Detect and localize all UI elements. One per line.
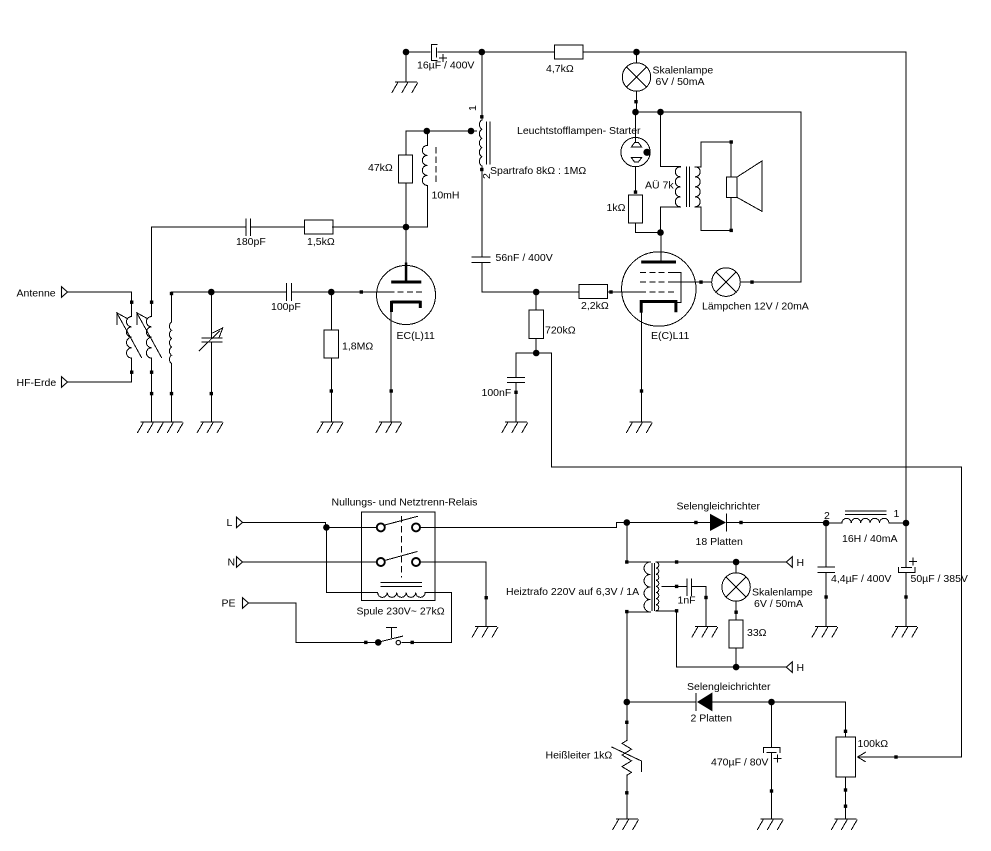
wire: antenna net row y292 [172,291,391,293]
capacitor C 50uF/385V [898,567,915,572]
ground (50uF) [892,627,918,638]
inductor L3 fixed coil [171,292,173,322]
svg-text:2,2kΩ: 2,2kΩ [581,300,609,312]
svg-text:Selengleichrichter: Selengleichrichter [687,681,771,693]
svg-text:Skalenlampe: Skalenlampe [752,587,813,599]
wire: tap to 47k node [406,130,476,132]
ground (16uF) [405,52,407,82]
capacitor C 100pF [287,284,292,301]
junction node 2 / choke [823,520,830,527]
svg-text:6V / 50mA: 6V / 50mA [656,76,705,88]
resistor R 47k [405,131,407,227]
inductor L1 antenna coil (variable) [126,317,131,359]
ground (470uF) [758,819,784,830]
relay blade 2 [386,552,417,561]
svg-text:1kΩ: 1kΩ [607,202,626,214]
wire: L row [243,522,378,527]
wire: feedback run to volume pot [551,353,961,757]
capacitor C 4,4uF/400V [825,523,827,567]
wire: B+ top rail [406,51,906,53]
svg-text:Skalenlampe: Skalenlampe [653,65,714,77]
svg-text:4,7kΩ: 4,7kΩ [546,63,574,75]
svg-text:100pF: 100pF [271,301,301,313]
capacitor C 180pF [152,226,305,228]
svg-text:1: 1 [467,105,479,111]
thermistor Heissleiter 1k [626,702,628,741]
ground (1nF) [692,627,718,638]
terminal HF-Erde [62,377,68,388]
svg-text:H: H [797,662,805,674]
svg-text:50µF / 385V: 50µF / 385V [911,573,968,585]
lamp Skalenlampe 6V/50mA [636,52,638,63]
transformer core [686,167,689,207]
relay contact 1a [377,523,385,531]
resistor R 4,7k [555,45,584,59]
svg-text:E(C)L11: E(C)L11 [651,330,689,342]
ground (L2) [138,422,164,433]
diode Selengleichrichter 18 Platten [710,514,726,531]
inductor L2 grid coil (variable) [146,317,151,359]
svg-text:180pF: 180pF [236,236,266,248]
wire: N output to ground [420,562,486,627]
tube EC(L)11 triode [377,266,436,325]
capacitor C 16uF/400V [432,44,437,60]
speaker [730,142,732,177]
svg-text:Lämpchen 12V / 20mA: Lämpchen 12V / 20mA [702,301,809,313]
terminal PE [243,598,249,609]
switch (Nullung test) [379,636,403,642]
svg-text:16µF / 400V: 16µF / 400V [417,60,474,72]
transformer Heiztrafo primary [627,523,651,563]
wire: anode node row y227 [333,226,428,228]
ground (N) [472,627,498,638]
transformer core [652,564,655,611]
junction node Skalenlampe top [633,49,640,56]
wire: secondary bottom to H row [656,611,787,667]
capacitor C 100nF [515,353,517,377]
relay contact 1b [412,523,420,531]
transformer Heiztrafo secondary [656,562,659,611]
inductor 16H/40mA [826,522,842,524]
svg-text:H: H [797,557,805,569]
capacitor C variable (tuning) [210,292,212,422]
diode Selengleichrichter 2 Platten [695,693,697,710]
inductor L 10mH [426,131,428,227]
svg-text:EC(L)11: EC(L)11 [397,330,435,342]
terminal L [237,517,243,528]
resistor R 33 Ohm [729,620,743,648]
capacitor C 470uF/80V [771,702,773,747]
junction node 16uF [403,49,410,56]
svg-text:Antenne: Antenne [17,288,56,300]
wire: grid node to 2,2k [536,291,579,293]
svg-text:16H / 40mA: 16H / 40mA [842,533,897,545]
svg-text:Spartrafo 8kΩ : 1MΩ: Spartrafo 8kΩ : 1MΩ [490,165,586,177]
svg-text:18 Platten: 18 Platten [696,536,743,548]
ground (L3) [158,422,184,433]
ground (tube2 cathode) [627,422,653,433]
relay contact 2b [412,558,420,566]
svg-text:4,4µF / 400V: 4,4µF / 400V [831,573,891,585]
ground (100k) [832,819,858,830]
tube E(C)L11 output pentode [622,252,696,326]
ground (100nF) [502,422,528,433]
relay coil [326,527,377,592]
svg-text:2: 2 [824,510,830,522]
transformer Spartrafo 8k:1M [481,52,483,120]
svg-text:1,8MΩ: 1,8MΩ [342,341,373,353]
terminal H top [786,557,792,568]
lamp Laempchen 12V/20mA [712,268,741,297]
transformer AUe 7k primary [661,112,681,167]
ground (Heissleiter) [613,819,639,830]
wire: PE to switch [249,603,376,642]
ground (4,4uF) [812,627,838,638]
relay contact 2a [377,558,385,566]
svg-text:Heiztrafo 220V auf 6,3V / 1A: Heiztrafo 220V auf 6,3V / 1A [506,586,639,598]
capacitor C 1nF [687,579,692,595]
relay blade 1 [386,516,418,524]
svg-text:L: L [227,517,233,529]
junction anode node [657,229,664,236]
relay core bars [381,583,422,587]
resistor R 1k (starter) [628,195,642,223]
wire: heater top row H [656,561,787,563]
junction node B+ / Spartrafo [479,49,486,56]
svg-text:56nF / 400V: 56nF / 400V [496,252,553,264]
wire: L output row to rectifier [420,523,710,528]
arrow (variable L1) [117,313,142,358]
svg-text:2 Platten: 2 Platten [691,713,733,725]
wire: secondary tap to 1nF [662,585,687,587]
lamp Skalenlampe 2 [735,562,737,573]
ground (C var) [197,422,223,433]
relay dashed link [401,517,403,578]
svg-text:10mH: 10mH [432,190,460,202]
svg-text:Nullungs- und Netztrenn-Relais: Nullungs- und Netztrenn-Relais [332,497,478,509]
svg-text:N: N [228,557,236,569]
resistor R 720k [535,292,537,353]
svg-text:1,5kΩ: 1,5kΩ [307,236,335,248]
svg-text:Selengleichrichter: Selengleichrichter [677,501,761,513]
wire: HF-Erde to coil1 [68,381,132,383]
svg-text:100kΩ: 100kΩ [858,738,889,750]
wire: bottom rectifier row [627,701,696,703]
wire: output loop right side [800,112,802,282]
svg-text:33Ω: 33Ω [747,627,767,639]
svg-text:Spule 230V~ 27kΩ: Spule 230V~ 27kΩ [357,606,445,618]
wire: screen rail y112 [636,111,802,113]
svg-text:PE: PE [222,598,236,610]
resistor R 2,2k [579,285,608,299]
ground (tube1 cathode) [376,422,402,433]
svg-text:720kΩ: 720kΩ [545,325,576,337]
svg-text:1nF: 1nF [678,595,696,607]
potentiometer 100k [845,702,847,737]
wire: N row [243,561,378,563]
resistor R 1,5k [304,220,333,234]
relay box [362,512,436,601]
svg-text:Heißleiter 1kΩ: Heißleiter 1kΩ [546,750,613,762]
svg-text:AÜ 7k: AÜ 7k [645,180,674,192]
svg-text:47kΩ: 47kΩ [368,162,393,174]
ground (1,8M) [317,422,343,433]
svg-text:6V / 50mA: 6V / 50mA [754,598,803,610]
wire: B+ vertical x906 [905,52,907,567]
svg-text:1: 1 [894,508,900,520]
Leuchtstofflampen-Starter [635,112,637,142]
svg-text:470µF / 80V: 470µF / 80V [711,757,768,769]
arrow (variable L2) [137,313,162,358]
resistor R 1,8M [330,292,332,422]
terminal H bottom [786,662,792,673]
transformer AUe 7k secondary [695,167,700,207]
terminal N [237,557,243,568]
svg-text:Leuchtstofflampen- Starter: Leuchtstofflampen- Starter [517,125,641,137]
capacitor C 56nF/400V [472,257,490,262]
svg-text:100nF: 100nF [482,387,512,399]
node 720k bottom [516,352,551,354]
svg-text:HF-Erde: HF-Erde [17,377,57,389]
wire: antenna to coil1 [68,292,132,317]
terminal Antenne [62,287,68,298]
